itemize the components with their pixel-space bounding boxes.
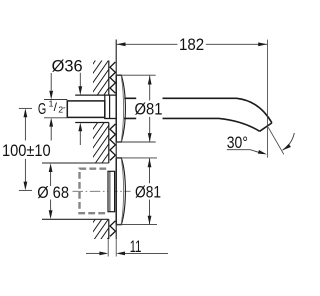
valve sleeve through wall: [108, 171, 115, 211]
upper flange dome curves: [122, 76, 126, 142]
100+-10 dimension line: [24, 117, 26, 141]
O81 upper extension lines: [116, 74, 156, 76]
svg-text:Ø81: Ø81: [135, 183, 161, 201]
O81 lower extension lines: [116, 157, 157, 159]
svg-text:Ø 68: Ø 68: [37, 184, 69, 202]
G1/2 arrows: [50, 73, 52, 91]
lower flange outline: [115, 158, 117, 225]
30deg arc arrow: [283, 133, 295, 150]
pipe socket through wall: [75, 94, 116, 96]
upper flange outline: [115, 75, 117, 142]
wall finish layer zigzag middle: [110, 124, 115, 160]
upper flange top/bottom edges: [116, 74, 122, 76]
wall finish layer zigzag lower: [110, 221, 115, 237]
lower flange top/bottom edges: [116, 157, 122, 159]
svg-text:11: 11: [130, 238, 142, 256]
O81 lower dimension line: [149, 158, 151, 183]
G1/2 supply pipe: [67, 101, 105, 118]
spout outlet face: [260, 123, 272, 131]
O68 arrows: [50, 171, 52, 186]
O36 arrows: [79, 73, 81, 87]
spout axis thin line: [268, 127, 284, 154]
wall hatch lower segment: [93, 219, 109, 239]
finished wall surface line / 182 extension line: [115, 40, 117, 240]
svg-text:182: 182: [179, 36, 204, 54]
G1/2 extension lines: [44, 99, 67, 101]
lower flange dome curves: [122, 158, 126, 224]
svg-text:30°: 30°: [227, 134, 248, 152]
30deg leader: [227, 150, 262, 154]
11 dimension line + arrows: [86, 252, 100, 254]
rough wall surface line: [108, 61, 110, 96]
spout tube bottom edge: [124, 118, 260, 131]
wall hatch middle segment: [93, 123, 109, 164]
100+-10 tick marks: [19, 107, 32, 109]
O81 upper dimension line: [149, 76, 151, 101]
svg-text:100±10: 100±10: [2, 142, 51, 160]
wall finish layer zigzag upper: [110, 62, 115, 93]
svg-text:Ø81: Ø81: [135, 101, 163, 119]
concealed valve dashed box: [80, 169, 107, 214]
spout tube top edge: [124, 98, 272, 123]
182 right extension line: [266, 40, 268, 158]
svg-text:G: G: [38, 101, 46, 118]
182 dimension line: [116, 43, 177, 45]
O68 extension lines / hole edges: [42, 162, 109, 164]
wall hatch upper segment: [93, 61, 109, 96]
centre line: [73, 190, 131, 192]
wall hole lower edge (O36): [75, 122, 109, 124]
O81 upper text background: [136, 96, 162, 122]
svg-text:Ø36: Ø36: [52, 58, 83, 76]
11 extension lines: [107, 239, 109, 257]
